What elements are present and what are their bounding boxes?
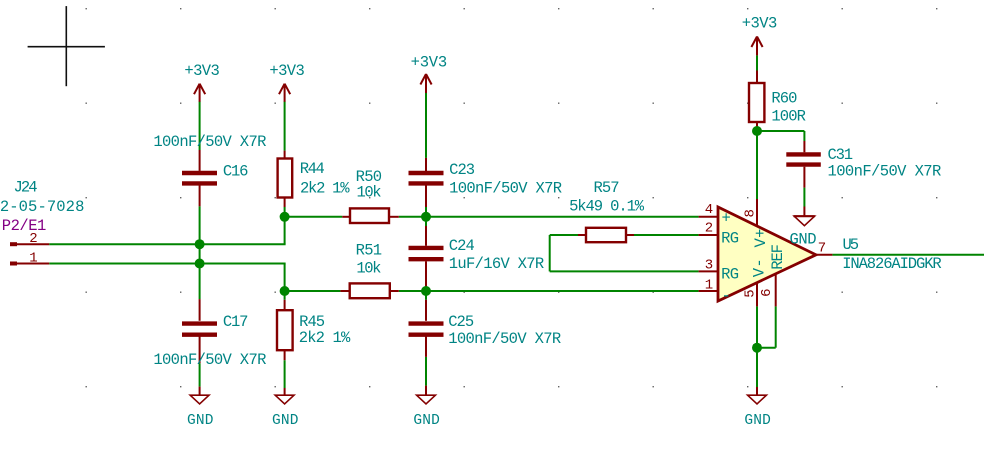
- svg-text:R51: R51: [356, 241, 383, 259]
- svg-text:RG: RG: [721, 229, 739, 247]
- svg-text:100nF/50V X7R: 100nF/50V X7R: [153, 351, 266, 369]
- svg-text:100nF/50V X7R: 100nF/50V X7R: [448, 330, 561, 348]
- svg-text:+3V3: +3V3: [411, 53, 448, 71]
- svg-text:C17: C17: [223, 313, 249, 331]
- svg-text:R44: R44: [300, 160, 325, 178]
- svg-text:C31: C31: [828, 146, 854, 164]
- svg-text:J24: J24: [14, 178, 38, 196]
- svg-text:1: 1: [705, 278, 713, 294]
- svg-text:R60: R60: [771, 90, 797, 108]
- svg-text:+3V3: +3V3: [184, 62, 220, 80]
- svg-text:C24: C24: [449, 237, 475, 255]
- svg-text:REF: REF: [769, 244, 787, 270]
- svg-text:C25: C25: [448, 313, 474, 331]
- svg-text:22-05-7028: 22-05-7028: [0, 198, 84, 216]
- svg-text:U5: U5: [843, 236, 860, 254]
- svg-text:2: 2: [29, 231, 37, 247]
- svg-text:GND: GND: [790, 231, 817, 249]
- svg-text:+3V3: +3V3: [742, 15, 778, 33]
- svg-text:100nF/50V X7R: 100nF/50V X7R: [153, 133, 266, 151]
- svg-text:5: 5: [743, 289, 759, 297]
- svg-text:GND: GND: [272, 413, 299, 429]
- svg-text:2k2 1%: 2k2 1%: [299, 329, 351, 347]
- svg-text:GND: GND: [744, 413, 771, 429]
- svg-text:7: 7: [818, 241, 826, 257]
- svg-text:C23: C23: [449, 161, 475, 179]
- svg-text:INA826AIDGKR: INA826AIDGKR: [842, 255, 942, 273]
- svg-text:100nF/50V X7R: 100nF/50V X7R: [449, 179, 562, 197]
- svg-text:RG: RG: [721, 266, 739, 284]
- svg-text:100R: 100R: [771, 108, 806, 126]
- svg-text:P2/E1: P2/E1: [2, 217, 47, 235]
- svg-text:6: 6: [759, 288, 775, 296]
- svg-text:GND: GND: [413, 413, 440, 429]
- svg-text:8: 8: [743, 209, 759, 217]
- svg-text:R57: R57: [594, 179, 620, 197]
- svg-text:V+: V+: [752, 229, 770, 248]
- svg-text:10k: 10k: [357, 184, 382, 202]
- svg-text:C16: C16: [223, 162, 249, 180]
- svg-text:3: 3: [705, 257, 713, 273]
- svg-text:2k2 1%: 2k2 1%: [300, 179, 350, 197]
- svg-text:V-: V-: [750, 258, 768, 277]
- svg-text:GND: GND: [187, 413, 214, 429]
- svg-text:2: 2: [705, 221, 713, 237]
- svg-text:4: 4: [705, 202, 713, 218]
- svg-text:+3V3: +3V3: [269, 62, 305, 80]
- svg-text:5k49 0.1%: 5k49 0.1%: [569, 198, 645, 216]
- svg-text:-: -: [722, 287, 731, 305]
- svg-text:100nF/50V X7R: 100nF/50V X7R: [828, 163, 942, 181]
- svg-text:1uF/16V X7R: 1uF/16V X7R: [449, 255, 544, 273]
- svg-text:1: 1: [29, 250, 37, 266]
- svg-text:10k: 10k: [356, 260, 381, 278]
- svg-text:+: +: [722, 210, 731, 228]
